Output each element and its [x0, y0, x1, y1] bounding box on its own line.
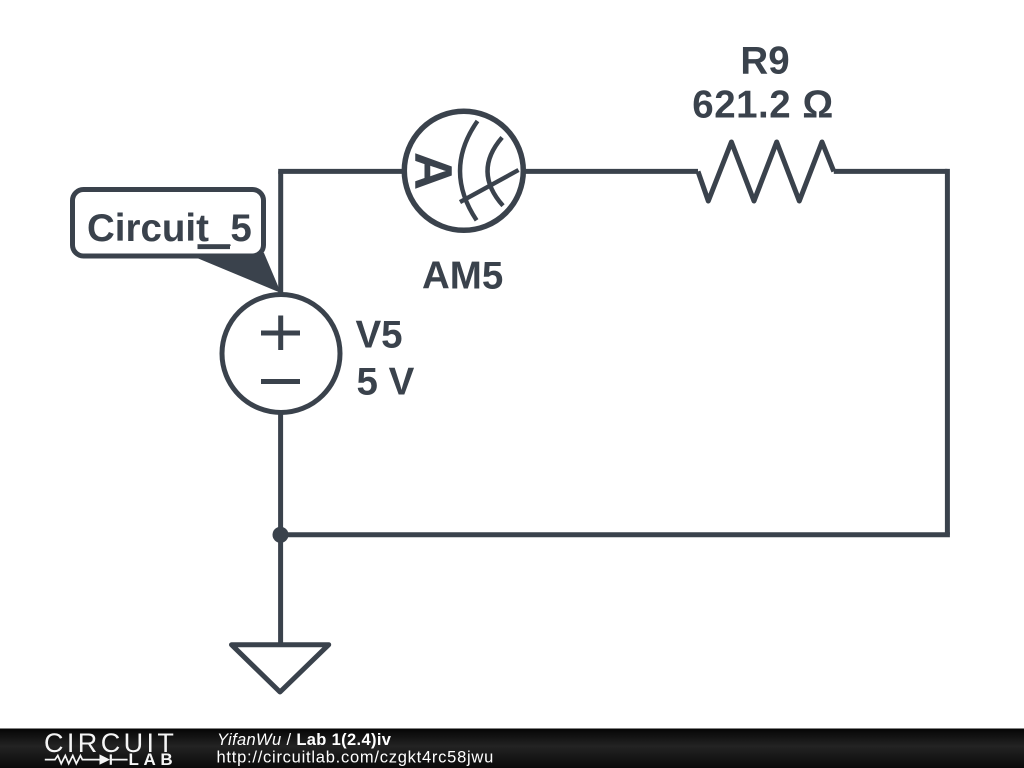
- svg-text:YifanWu / Lab 1(2.4)iv: YifanWu / Lab 1(2.4)iv: [217, 731, 392, 749]
- wire: bottom rail: [281, 532, 950, 537]
- svg-text:Circuit_5: Circuit_5: [87, 207, 252, 250]
- ground: [232, 645, 329, 692]
- svg-text:A: A: [403, 152, 462, 190]
- resistor R9: [698, 142, 834, 201]
- voltage source V5: [222, 295, 340, 413]
- svg-text:http://circuitlab.com/czgkt4rc: http://circuitlab.com/czgkt4rc58jwu: [217, 749, 495, 767]
- svg-text:621.2 Ω: 621.2 Ω: [692, 84, 833, 127]
- callout tail: [185, 253, 281, 293]
- svg-text:LAB: LAB: [129, 750, 178, 768]
- wire: junction to ground: [278, 535, 283, 643]
- wire: right vertical rail: [945, 169, 950, 535]
- svg-text:R9: R9: [740, 39, 789, 82]
- ammeter AM5: [403, 111, 523, 230]
- logo diode: [100, 754, 111, 764]
- wire: top-left vertical from V5 top to top rail: [278, 171, 283, 296]
- logo zigzag wire: [45, 756, 100, 764]
- wire: resistor right to top-right corner: [834, 169, 948, 174]
- node junction dot: [273, 527, 289, 543]
- footer bar: [0, 729, 1024, 768]
- wire: V5 bottom to junction: [278, 412, 283, 535]
- svg-text:5 V: 5 V: [357, 361, 415, 404]
- callout box Circuit_5: [73, 190, 264, 257]
- wire: top rail from corner to ammeter left: [278, 169, 404, 174]
- wire: ammeter right to resistor left: [523, 169, 698, 174]
- svg-text:AM5: AM5: [422, 255, 503, 298]
- svg-text:V5: V5: [356, 314, 403, 357]
